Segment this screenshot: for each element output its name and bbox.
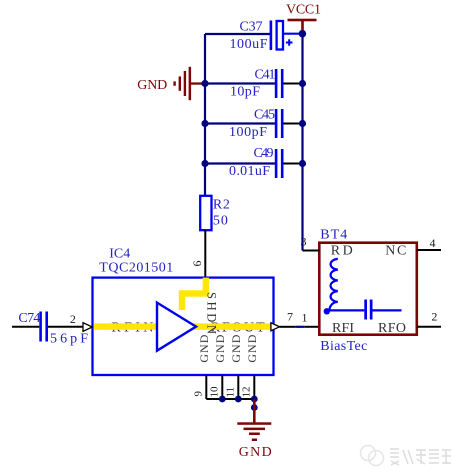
junction gnd 3 xyxy=(251,396,258,403)
svg-text:SHDN: SHDN xyxy=(205,292,219,334)
wire input to pin 2 xyxy=(48,326,84,328)
svg-text:11: 11 xyxy=(225,387,237,398)
svg-text:GND: GND xyxy=(137,78,167,93)
capacitor C49 xyxy=(229,146,284,179)
svg-text:3: 3 xyxy=(301,235,307,249)
wire BT4 pin 2 stub xyxy=(417,326,441,328)
svg-text:C74: C74 xyxy=(18,311,40,326)
wire BT4 pin 4 stub xyxy=(417,249,441,251)
svg-text:56pF: 56pF xyxy=(50,332,88,347)
junction C45 left xyxy=(201,120,208,127)
svg-text:10pF: 10pF xyxy=(230,85,260,100)
svg-text:IC4: IC4 xyxy=(109,247,130,262)
svg-text:C45: C45 xyxy=(254,108,275,123)
svg-text:C41: C41 xyxy=(255,68,276,83)
junction C49 right xyxy=(299,160,306,167)
svg-text:1: 1 xyxy=(302,311,308,325)
wire BT4 pin 3 stub xyxy=(303,250,320,252)
inductor coil in BT4 xyxy=(330,259,338,310)
svg-text:GND: GND xyxy=(213,334,227,362)
wire BT4 pin 1 stub xyxy=(305,326,318,328)
amplifier triangle xyxy=(157,303,196,351)
wire C37 row left xyxy=(205,33,271,35)
wire coil to cap xyxy=(330,309,365,311)
watermark logo circles xyxy=(361,446,384,466)
op-amp U IC4 box xyxy=(93,278,274,375)
svg-text:0.01uF: 0.01uF xyxy=(229,164,270,179)
wire left rail xyxy=(204,34,206,196)
svg-text:BT4: BT4 xyxy=(320,227,347,242)
svg-text:2: 2 xyxy=(70,312,76,326)
IC4 bottom pin 10 xyxy=(221,376,223,400)
svg-text:TQC201501: TQC201501 xyxy=(99,261,173,276)
watermark text strokes xyxy=(390,449,451,465)
component BT4 box xyxy=(319,243,417,335)
svg-text:VCC1: VCC1 xyxy=(286,3,321,18)
wire cap to RFO xyxy=(373,309,402,311)
svg-text:GND: GND xyxy=(239,445,272,460)
junction VCC node xyxy=(299,30,307,38)
svg-text:10: 10 xyxy=(209,386,221,398)
wire C49 row right xyxy=(283,163,302,165)
IC4 bottom pin 9 xyxy=(205,376,207,400)
capacitor C45 xyxy=(229,108,284,140)
svg-text:4: 4 xyxy=(430,236,436,250)
wire ground bus xyxy=(206,398,254,400)
svg-text:7: 7 xyxy=(287,309,293,323)
svg-text:100pF: 100pF xyxy=(229,125,267,140)
wire C49 row left xyxy=(205,162,275,164)
pin 2 input arrow xyxy=(83,323,92,332)
wire net pin7 to BT4 xyxy=(295,326,304,328)
capacitor in BT4 xyxy=(364,300,372,320)
junction C49 left xyxy=(201,160,208,167)
svg-text:RFI: RFI xyxy=(332,321,354,336)
wire input left xyxy=(12,326,39,328)
svg-text:RFO: RFO xyxy=(378,321,406,336)
ground GND bottom xyxy=(237,400,271,460)
svg-text:C37: C37 xyxy=(240,20,263,35)
wire C45 row left xyxy=(205,122,275,124)
wire highlighted RF net inside IC xyxy=(94,323,272,329)
junction RFI dot xyxy=(324,308,330,314)
svg-text:2: 2 xyxy=(431,309,437,323)
wire C37 row right xyxy=(283,33,303,35)
capacitor C74 xyxy=(18,311,88,347)
capacitor C37 xyxy=(230,20,293,52)
junction C41 right xyxy=(299,80,306,87)
wire C45 row right xyxy=(283,123,302,125)
svg-text:12: 12 xyxy=(241,387,253,398)
wire pin 7 stub xyxy=(280,326,296,328)
svg-text:100uF: 100uF xyxy=(230,37,268,52)
svg-text:50: 50 xyxy=(213,214,228,229)
svg-text:6: 6 xyxy=(190,261,204,267)
svg-text:R2: R2 xyxy=(213,198,230,213)
wire C41 row right xyxy=(283,83,302,85)
capacitor C41 xyxy=(230,68,284,100)
junction gnd 4 xyxy=(251,404,258,411)
IC4 bottom pin 11 xyxy=(237,376,239,400)
svg-text:C49: C49 xyxy=(254,146,274,161)
ground GND top-left xyxy=(137,67,205,100)
junction C45 right xyxy=(299,120,306,127)
wire C41 row left xyxy=(205,82,275,84)
wire right rail xyxy=(301,34,303,251)
resistor R2 xyxy=(200,196,230,230)
wire highlighted SHDN net xyxy=(182,278,206,310)
svg-text:GND: GND xyxy=(229,334,243,362)
svg-text:RD: RD xyxy=(331,244,353,259)
svg-text:GND: GND xyxy=(197,334,211,362)
junction gnd 1 xyxy=(219,396,226,403)
wire R2 to pin 6 xyxy=(204,230,206,277)
svg-text:GND: GND xyxy=(245,334,259,362)
junction gnd 2 xyxy=(235,396,242,403)
IC4 bottom pin 12 xyxy=(253,376,255,400)
power symbol VCC1 xyxy=(286,3,321,34)
junction C41 left xyxy=(201,80,208,87)
svg-text:BiasTec: BiasTec xyxy=(320,339,367,354)
svg-text:9: 9 xyxy=(193,391,205,397)
pin 7 output arrow xyxy=(271,323,280,331)
